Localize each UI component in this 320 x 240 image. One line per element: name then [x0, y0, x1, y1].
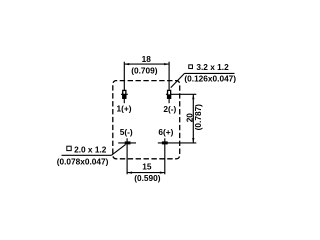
- pin 6 horizontal centerline / extension: [158, 142, 197, 144]
- dimension 18 left arrow: [124, 63, 129, 65]
- hole size label 3.2x1.2 leader: [171, 73, 185, 87]
- pin 2 pad: [168, 90, 171, 98]
- svg-text:2(-): 2(-): [163, 104, 176, 114]
- pin 1 tick: [121, 93, 128, 95]
- pin 1 pad: [123, 90, 126, 98]
- hole size label 2.0x1.2 underline: [62, 154, 112, 156]
- svg-text:(0.126x0.047): (0.126x0.047): [184, 73, 236, 83]
- dimension 15 left arrow: [127, 171, 132, 173]
- dimension 20 line: [192, 94, 194, 143]
- svg-text:(0.787): (0.787): [193, 104, 203, 131]
- svg-text:18: 18: [142, 54, 152, 64]
- hole size label 2.0x1.2 square symbol: [67, 146, 71, 150]
- svg-text:3.2 x 1.2: 3.2 x 1.2: [196, 62, 229, 72]
- dimension 18 right arrow: [164, 63, 169, 65]
- relay body outline (dashed): [113, 81, 180, 159]
- dimension 20 top arrow: [192, 94, 194, 99]
- pin 6 pad: [162, 141, 168, 144]
- svg-text:6(+): 6(+): [158, 127, 173, 137]
- hole size label 2.0x1.2 leader: [111, 145, 125, 156]
- pin 5 pad: [125, 141, 131, 144]
- pin 2 horizontal centerline / extension: [166, 93, 196, 95]
- dimension 18 line: [124, 63, 169, 65]
- hole size label 3.2x1.2 underline: [185, 72, 235, 74]
- svg-text:5(-): 5(-): [120, 127, 133, 137]
- svg-text:(0.590): (0.590): [134, 173, 161, 183]
- svg-text:(0.709): (0.709): [131, 66, 158, 76]
- pin 6 centerline vertical: [164, 138, 166, 174]
- pin 5 centerline horizontal: [118, 142, 136, 144]
- svg-text:(0.078x0.047): (0.078x0.047): [57, 156, 109, 166]
- dimension 15 line: [127, 172, 165, 174]
- svg-text:1(+): 1(+): [117, 104, 132, 114]
- dimension 20 bottom arrow: [192, 138, 194, 143]
- pin 1 centerline: [123, 62, 125, 103]
- svg-text:2.0 x 1.2: 2.0 x 1.2: [74, 144, 107, 154]
- hole size label 3.2x1.2 square symbol: [189, 65, 193, 69]
- pin 5 centerline vertical: [126, 138, 128, 174]
- dimension 15 right arrow: [160, 171, 165, 173]
- pin 2 centerline: [168, 62, 170, 103]
- svg-text:15: 15: [142, 161, 152, 171]
